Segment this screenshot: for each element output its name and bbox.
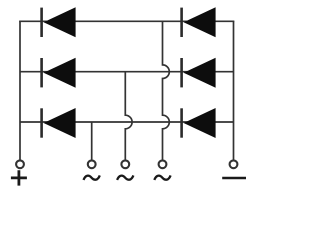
wire: AC phase 1 vertical (row 3 junction down to terminal) bbox=[91, 122, 93, 161]
wire: row 3 horizontal (bottom) bbox=[20, 121, 234, 123]
terminal: - output (open circle) bbox=[230, 160, 238, 168]
label: ~ (AC phase 3) bbox=[154, 175, 170, 180]
wire: row 1 horizontal (top) bbox=[19, 20, 234, 22]
terminal: AC phase 1 (open circle) bbox=[88, 160, 96, 168]
terminal: AC phase 3 (open circle) bbox=[159, 160, 167, 168]
wire: left positive rail bbox=[19, 21, 21, 161]
wire: AC phase 3 vertical (row 1 junction, hops over rows 2 and 3, down to terminal) bbox=[163, 21, 170, 161]
wire: AC phase 2 vertical (row 2 junction, hop over row 3, down to terminal) bbox=[125, 72, 132, 161]
wire: right negative rail bbox=[233, 21, 235, 161]
label: + (positive output) bbox=[11, 170, 27, 185]
diode D2 (row 1, right) bbox=[182, 7, 216, 37]
terminal: + output (open circle) bbox=[16, 160, 24, 168]
wire: row 2 horizontal (middle) bbox=[20, 71, 234, 73]
diode D5 (row 3, left) bbox=[42, 108, 76, 138]
label: ~ (AC phase 1) bbox=[84, 175, 100, 180]
diode D4 (row 2, right) bbox=[182, 58, 216, 88]
terminal: AC phase 2 (open circle) bbox=[121, 160, 129, 168]
label: - (negative output) bbox=[222, 177, 246, 180]
diode D1 (row 1, left) bbox=[42, 7, 76, 37]
label: ~ (AC phase 2) bbox=[117, 175, 133, 180]
diode D3 (row 2, left) bbox=[42, 58, 76, 88]
diode D6 (row 3, right) bbox=[182, 108, 216, 138]
